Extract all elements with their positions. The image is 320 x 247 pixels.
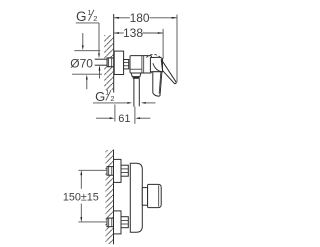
arrow to pipe bottom edge (99, 66, 101, 79)
supply pipe stub in wall (95, 59, 108, 65)
dashed arc (handle swing) (146, 54, 162, 59)
extension line at 138 (cap edge) (162, 29, 164, 59)
dimension 138 (114, 26, 163, 40)
wall face line (front view) (113, 150, 115, 245)
svg-text:61: 61 (118, 113, 130, 125)
mixer body (side view) (130, 56, 151, 73)
lever grip (pointing down) (153, 72, 162, 97)
cartridge neck (front view) (142, 188, 147, 206)
svg-text:G: G (95, 89, 105, 104)
dimension 180 (114, 11, 177, 25)
lever blade (diagonal) (161, 59, 176, 83)
dimension D70 upper arrow (82, 33, 84, 50)
lower hex nut at wall (107, 218, 114, 227)
mixer body (front view) (130, 163, 142, 232)
cap right edge over blade (162, 58, 164, 71)
svg-text:G: G (76, 9, 87, 24)
svg-text:2: 2 (93, 14, 97, 23)
upper union nut (front view) (121, 165, 128, 176)
wall hatching (front view) (106, 150, 114, 244)
grip inner edge (159, 72, 161, 93)
lever cap (side view) (150, 57, 162, 72)
dimension D70 bottom extension (72, 73, 102, 75)
escutcheon (side view) (114, 51, 123, 74)
upper hex nut at wall (107, 167, 114, 176)
union nut (side view) (124, 60, 129, 69)
handle cap (front view) (148, 184, 162, 207)
concealed elbow union in wall (107, 58, 114, 67)
extension line at 180 (handle tip) (176, 15, 178, 83)
upper escutcheon (front view) (114, 159, 122, 182)
svg-text:Ø70: Ø70 (70, 57, 93, 71)
wall hatching (side view) (104, 35, 113, 90)
outlet nut (131, 73, 141, 77)
svg-text:2: 2 (111, 94, 115, 103)
lever neck curve (153, 63, 162, 71)
counter arrow at pipe right (141, 102, 156, 104)
dimension 150+-15 (63, 170, 107, 222)
shower outlet pipe (134, 79, 139, 107)
dimension D70 lower arrow (86, 75, 88, 90)
wall face line (side view) (113, 14, 115, 93)
svg-text:138: 138 (123, 26, 143, 40)
lower escutcheon (front view) (114, 211, 122, 234)
svg-text:180: 180 (130, 11, 150, 25)
svg-text:150±15: 150±15 (63, 191, 99, 203)
lower union nut (front view) (121, 217, 128, 228)
outlet seal band (dark) (133, 77, 140, 79)
label G 1/2 (bottom, shower outlet thread) (93, 88, 132, 104)
dimension D70 top extension (74, 50, 100, 52)
label G 1/2 (top, supply thread) (76, 8, 100, 59)
dimension 61 (96, 105, 150, 126)
